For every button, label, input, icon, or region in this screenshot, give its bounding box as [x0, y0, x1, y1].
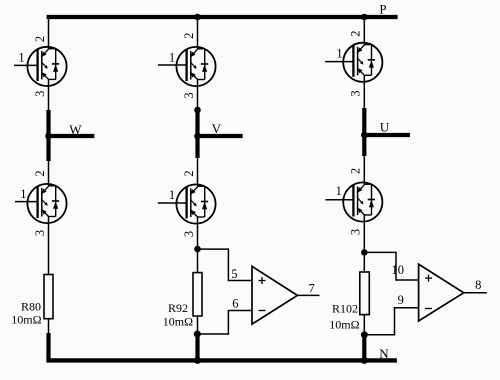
- node W label: [69, 122, 82, 137]
- svg-text:3: 3: [182, 92, 196, 98]
- wire right leg drain Q3: [363, 17, 365, 45]
- wire Q2 source down: [197, 80, 199, 112]
- transistor Q1 (IGBT with freewheel diode): [14, 36, 67, 97]
- wire phase V tap: [198, 134, 243, 138]
- svg-text:9: 9: [398, 293, 404, 307]
- svg-text:3: 3: [182, 231, 196, 237]
- svg-text:2: 2: [349, 168, 363, 174]
- wire Q5 source to sense node: [197, 217, 199, 273]
- wire op-amp U1 output pin 7: [297, 294, 319, 296]
- transistor Q3 (IGBT with freewheel diode): [325, 30, 382, 96]
- svg-text:10mΩ: 10mΩ: [329, 317, 359, 331]
- svg-text:R92: R92: [168, 301, 188, 315]
- svg-text:2: 2: [182, 33, 196, 39]
- svg-text:5: 5: [231, 267, 237, 281]
- node P junction dot middle: [194, 14, 201, 21]
- wire R102 bottom thin: [363, 315, 365, 335]
- wire op-amp U2 output pin 8: [464, 292, 487, 294]
- svg-text:W: W: [69, 122, 82, 137]
- node W junction dot: [45, 133, 52, 140]
- wire R80 bottom thin: [48, 319, 50, 334]
- svg-text:V: V: [212, 121, 222, 136]
- svg-text:1: 1: [336, 184, 342, 198]
- wire middle leg thick phase segment: [195, 110, 199, 158]
- wire phase W tap: [49, 134, 95, 138]
- svg-text:7: 7: [308, 281, 314, 295]
- transistor Q6 (IGBT with freewheel diode): [326, 168, 383, 235]
- wire left leg Q1 source to phase node: [48, 79, 50, 111]
- node U junction dot: [361, 132, 368, 139]
- op-amp U1: [252, 266, 297, 324]
- node U label: [380, 119, 390, 134]
- svg-text:U: U: [380, 119, 390, 134]
- pin 6 label: [232, 297, 238, 311]
- pin 7 label: [308, 281, 314, 295]
- wire middle leg drain Q2: [197, 17, 199, 49]
- svg-text:1: 1: [169, 51, 175, 65]
- wire left leg thick phase segment: [46, 110, 50, 161]
- transistor Q4 (IGBT with freewheel diode): [15, 170, 67, 236]
- node sense dot top of R102: [361, 249, 368, 256]
- node P label: [379, 1, 386, 16]
- resistor R92: [163, 273, 202, 329]
- svg-text:8: 8: [475, 278, 481, 292]
- wire op-amp U1 pin 6 input: [197, 311, 252, 335]
- wire left leg to Q4 drain: [48, 161, 50, 186]
- node sense dot bottom of R92: [194, 331, 201, 338]
- svg-text:2: 2: [182, 170, 196, 176]
- node junction dot middle leg top of phase segment: [194, 107, 201, 114]
- svg-text:3: 3: [33, 230, 47, 236]
- wire left leg drain Q1: [48, 17, 50, 49]
- svg-text:10mΩ: 10mΩ: [11, 313, 41, 327]
- node N label: [379, 346, 389, 361]
- wire middle leg to Q5 drain: [197, 158, 199, 186]
- transistor Q5 (IGBT with freewheel diode): [158, 170, 216, 237]
- svg-text:1: 1: [336, 47, 342, 61]
- wire op-amp U2 pin 10 input: [364, 252, 418, 280]
- wire R92 bottom thin: [197, 316, 199, 334]
- node sense dot bottom of R102: [361, 331, 368, 338]
- svg-text:2: 2: [33, 36, 47, 42]
- wire Q3 source down: [363, 75, 365, 109]
- svg-text:R102: R102: [332, 302, 358, 316]
- bottom rail N: [46, 358, 397, 362]
- svg-text:3: 3: [33, 91, 47, 97]
- node sense dot top of R92: [194, 246, 201, 253]
- wire Q6 source to sense node: [363, 215, 365, 272]
- node N junction dot right: [361, 357, 368, 364]
- node V junction dot: [194, 133, 201, 140]
- pin 10 label: [391, 263, 404, 277]
- wire R102 to N rail thick: [362, 335, 366, 361]
- wire R92 to N rail thick: [195, 334, 199, 360]
- wire Q4 source to R80: [48, 217, 50, 275]
- wire right leg to Q6 drain: [363, 156, 365, 184]
- resistor R80: [11, 275, 53, 327]
- svg-text:R80: R80: [21, 300, 41, 314]
- node N junction dot middle: [194, 357, 201, 364]
- node V label: [212, 121, 222, 136]
- svg-text:10: 10: [391, 263, 404, 277]
- svg-text:3: 3: [349, 90, 363, 96]
- svg-text:10mΩ: 10mΩ: [163, 315, 193, 329]
- wire op-amp U1 pin 5 input: [198, 249, 253, 280]
- svg-text:3: 3: [349, 229, 363, 235]
- svg-text:P: P: [379, 1, 386, 16]
- top supply rail P: [47, 15, 398, 19]
- wire op-amp U2 pin 9 input: [364, 308, 418, 335]
- node P junction dot right: [361, 14, 368, 21]
- op-amp U2: [419, 264, 464, 321]
- wire right leg thick phase segment: [362, 108, 366, 156]
- pin 9 label: [398, 293, 404, 307]
- pin 8 label: [475, 278, 481, 292]
- svg-text:1: 1: [18, 51, 24, 65]
- wire phase U tap: [364, 133, 410, 137]
- svg-text:1: 1: [169, 188, 175, 202]
- svg-text:6: 6: [232, 297, 238, 311]
- svg-text:1: 1: [20, 187, 26, 201]
- wire R80 to N rail thick: [46, 333, 50, 360]
- transistor Q2 (IGBT with freewheel diode): [158, 33, 216, 99]
- svg-text:N: N: [379, 346, 389, 361]
- resistor R102: [329, 272, 369, 331]
- svg-text:2: 2: [349, 30, 363, 36]
- pin 5 label: [231, 267, 237, 281]
- svg-text:2: 2: [33, 170, 47, 176]
